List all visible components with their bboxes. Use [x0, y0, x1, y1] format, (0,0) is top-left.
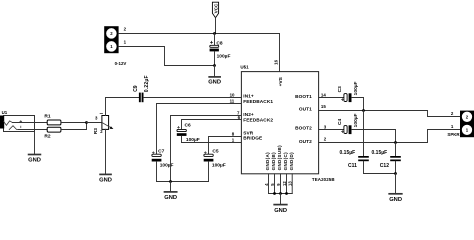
op-amp U$1 TEA2025B [240, 65, 334, 182]
svg-text:GND: GND [164, 195, 177, 201]
svg-text:BRIDGE: BRIDGE [243, 135, 262, 141]
wire C3 to OUT1 node [352, 98, 364, 111]
svg-text:GND(D): GND(D) [289, 152, 294, 171]
svg-text:0-12V: 0-12V [115, 61, 127, 66]
wire pot bottom to ground [105, 129, 107, 173]
svg-text:R3: R3 [93, 128, 99, 134]
wire C7 to ground bus [156, 162, 158, 182]
node junction OUT1 [362, 109, 365, 112]
svg-text:+VS: +VS [278, 76, 284, 86]
svg-text:16: 16 [274, 59, 279, 64]
svg-text:GND: GND [99, 177, 112, 183]
wire OUT2 to speaker [319, 130, 460, 143]
wire IC bottom pin 5 [274, 174, 276, 194]
wire IC bottom pin 13 [291, 174, 293, 194]
svg-text:U1: U1 [2, 110, 8, 115]
node junction pin5 bus [273, 192, 276, 195]
node junction ground bus [169, 180, 172, 183]
svg-text:100µF: 100µF [160, 163, 174, 169]
wire ground bus [157, 181, 209, 183]
svg-text:FEEDBACK2: FEEDBACK2 [243, 117, 273, 123]
svg-text:100µF: 100µF [353, 81, 359, 95]
ground symbol jack [28, 155, 41, 164]
wire IC pin 6 to C6 [182, 120, 242, 130]
wire IC pin 7 to ground bus [171, 116, 242, 182]
svg-text:BOOT1: BOOT1 [295, 94, 312, 100]
svg-text:14: 14 [321, 93, 326, 98]
svg-text:FEEDBACK1: FEEDBACK1 [243, 99, 273, 105]
svg-text:IN2+: IN2+ [243, 112, 254, 118]
wire C4 to OUT2 node [352, 130, 396, 143]
svg-text:C7: C7 [158, 149, 164, 155]
wire C12 to ground bus right [395, 161, 397, 173]
wire IC ground bus [269, 193, 293, 195]
svg-text:C9: C9 [133, 85, 139, 92]
svg-text:C8: C8 [216, 41, 222, 47]
ground symbol below C8 [208, 66, 221, 86]
node junction right ground bus [394, 172, 397, 175]
svg-text:BOOT2: BOOT2 [295, 125, 312, 131]
svg-text:GND(SUB): GND(SUB) [277, 145, 282, 171]
svg-text:VCC: VCC [214, 3, 219, 13]
wire bus to IC ground [280, 194, 282, 205]
svg-text:OUT2: OUT2 [299, 139, 312, 145]
node junction pin9 bus [279, 192, 282, 195]
wire R2 up to junction [61, 123, 87, 130]
svg-text:GND: GND [274, 208, 287, 214]
node junction VCC rail [213, 32, 216, 35]
svg-text:TEA2025B: TEA2025B [312, 177, 335, 182]
VCC supply symbol [212, 2, 218, 18]
svg-text:100µF: 100µF [212, 163, 226, 169]
wire top rail VCC [119, 33, 280, 35]
wire IC pin 8 to C5 [209, 137, 242, 155]
wire IC pin 3 to C4 [319, 129, 344, 131]
wire IC bottom pin 12 [286, 174, 288, 194]
svg-text:10: 10 [230, 93, 235, 98]
svg-text:0.22µF: 0.22µF [144, 75, 150, 92]
svg-text:GND(B): GND(B) [271, 152, 276, 171]
svg-text:0.15µF: 0.15µF [340, 150, 356, 156]
wire C6 bottom to pin1 net [181, 136, 183, 143]
svg-text:R1: R1 [44, 114, 50, 120]
capacitor C7 [152, 149, 174, 169]
svg-text:15: 15 [321, 104, 326, 109]
svg-text:C5: C5 [212, 149, 218, 155]
svg-text:100µF: 100µF [353, 113, 359, 127]
wire IC bottom pin 4 [268, 174, 270, 194]
svg-text:C12: C12 [380, 163, 389, 169]
svg-text:R2: R2 [44, 134, 50, 140]
svg-text:IN1+: IN1+ [243, 94, 254, 100]
svg-text:GND: GND [28, 157, 41, 163]
wire jack tip to R1 [12, 122, 47, 124]
wire jack sleeve down [34, 132, 36, 154]
wire C9 to IC pin 10 [144, 97, 242, 99]
capacitor C5 [204, 149, 226, 169]
svg-text:GND: GND [208, 80, 221, 86]
svg-text:C3: C3 [337, 86, 343, 92]
svg-text:0.15µF: 0.15µF [372, 150, 388, 156]
wire VCC to top rail [215, 18, 217, 34]
audio jack U1 [0, 110, 35, 131]
svg-text:C4: C4 [337, 119, 343, 125]
ground symbol pot [99, 174, 112, 183]
wire connector pin1 to ground rail [119, 47, 215, 66]
wire junction to potentiometer [87, 122, 102, 124]
svg-text:U$1: U$1 [240, 65, 249, 70]
capacitor C9 [133, 75, 150, 102]
svg-text:C11: C11 [348, 163, 357, 169]
ground symbol IC [274, 205, 287, 214]
ground symbol middle [164, 192, 177, 201]
wire IC pin 14 to C3 [319, 97, 344, 99]
wire pot top to C9 [106, 98, 139, 116]
wire OUT1 to speaker [319, 111, 460, 117]
svg-text:GND(C): GND(C) [283, 152, 288, 171]
capacitor C3 [337, 81, 359, 102]
wire OUT1 node to C11 [363, 111, 365, 156]
capacitor C6 [177, 123, 200, 143]
capacitor C8 [210, 34, 231, 66]
wire C5 to ground bus [208, 162, 210, 182]
wire IC bottom pin 9 [280, 174, 282, 194]
potentiometer R3 [93, 113, 113, 134]
wire IC pin 11 to C7 [157, 104, 242, 155]
capacitor C4 [337, 113, 359, 134]
resistor R1 [44, 114, 61, 125]
svg-text:SPKR: SPKR [447, 132, 460, 137]
capacitor C11 [340, 150, 369, 169]
svg-text:C6: C6 [185, 123, 191, 129]
capacitor C12 [372, 150, 401, 169]
svg-text:100µF: 100µF [217, 53, 231, 59]
node junction OUT2 [394, 141, 397, 144]
ground symbol right [389, 194, 402, 203]
svg-text:11: 11 [230, 99, 235, 104]
svg-text:GND(A): GND(A) [265, 152, 270, 171]
resistor R2 [44, 127, 61, 139]
wire bus to ground [170, 182, 172, 192]
wire OUT2 node to C12 [395, 143, 397, 156]
wire C11 to ground bus right [364, 161, 396, 173]
svg-text:OUT1: OUT1 [299, 107, 312, 113]
wire rail to IC pin 16 [279, 34, 281, 72]
wire right bus to ground [395, 174, 397, 194]
svg-text:GND: GND [389, 197, 402, 203]
connector X1 power header [104, 26, 118, 53]
node junction C8 bottom [213, 64, 216, 67]
connector SPKR [447, 111, 474, 138]
wire IC pin 1 to C6 [182, 142, 242, 144]
wire R1 to junction [61, 122, 87, 124]
wire jack ring to R2 [18, 129, 47, 131]
node junction R1 R2 [85, 121, 88, 124]
node junction pin12 bus [285, 192, 288, 195]
